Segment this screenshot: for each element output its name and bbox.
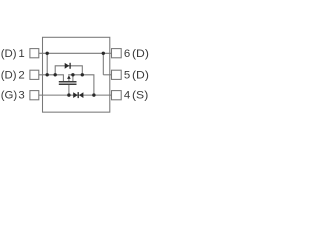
wire substrate lead	[68, 78, 70, 82]
label pin 3	[1, 90, 18, 102]
svg-text:(S): (S)	[132, 88, 148, 102]
transistor Q1 substrate arrow	[67, 75, 71, 79]
junction source lead	[71, 73, 74, 76]
svg-text:(D): (D)	[1, 48, 17, 60]
svg-text:(D): (D)	[132, 46, 149, 60]
svg-text:(D): (D)	[1, 69, 17, 81]
junction row1 left	[46, 52, 49, 55]
svg-text:3: 3	[18, 90, 24, 102]
wire row2 right pin5 stub	[103, 74, 111, 76]
svg-text:(D): (D)	[132, 68, 149, 82]
svg-text:5: 5	[124, 69, 130, 81]
package outline	[43, 37, 110, 112]
junction row2 bus	[46, 73, 49, 76]
junction gate lead row3	[67, 93, 70, 96]
transistor Q1 channel bar	[59, 81, 77, 83]
pin 3 box	[30, 91, 39, 100]
label pin 2	[1, 69, 17, 81]
wire body-diode branch	[55, 66, 82, 75]
junction diode-branch right	[81, 73, 84, 76]
diode D2 esd left triangle	[73, 92, 78, 98]
pin 5 box	[112, 70, 122, 79]
wire left vertical bus row1-row2	[46, 53, 48, 75]
wire row3 gate/source pin3-pin4	[39, 94, 112, 96]
wire right vertical bus row1-row2	[102, 53, 104, 75]
svg-text:2: 2	[18, 69, 24, 81]
junction row2 diode-branch left	[54, 73, 57, 76]
pin 4 box	[112, 91, 122, 100]
wire row1 drain bus pin1-pin6	[39, 52, 112, 54]
junction row1 right	[102, 52, 105, 55]
svg-text:(G): (G)	[1, 90, 18, 102]
svg-text:1: 1	[18, 48, 24, 60]
junction source drop row3	[92, 93, 95, 96]
label pin 5	[124, 69, 130, 81]
diode D2/D3 shared cathode bar	[77, 92, 79, 98]
pin 2 box	[30, 70, 39, 79]
diode D3 esd right triangle	[79, 92, 83, 98]
label pin 4	[124, 90, 130, 102]
label pin 1	[1, 48, 17, 60]
wire row2 left pin2 to mosfet drain corner	[39, 75, 64, 82]
wire source node to pin4 drop	[68, 75, 94, 95]
pin 1 box	[30, 49, 39, 58]
label pin 6	[124, 48, 130, 60]
svg-text:4: 4	[124, 90, 130, 102]
pin 6 box	[112, 49, 122, 58]
diode D1 cathode bar	[69, 63, 71, 69]
svg-text:6: 6	[124, 48, 130, 60]
wire source lead	[72, 75, 74, 82]
transistor Q1 gate bar	[59, 83, 77, 85]
diode D1 body diode triangle	[65, 63, 70, 69]
wire gate lead	[68, 84, 70, 95]
